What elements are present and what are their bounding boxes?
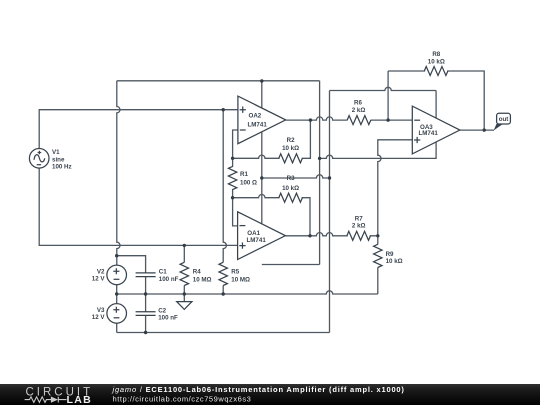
junction V2+ to C1 xyxy=(115,254,118,257)
svg-text:100 Ω: 100 Ω xyxy=(240,179,257,186)
svg-text:10 kΩ: 10 kΩ xyxy=(282,185,299,192)
source V1 sine xyxy=(29,149,49,169)
wire R8 top row xyxy=(388,71,484,130)
wire OA2 top power pin xyxy=(261,81,263,108)
junction R3 to OA1 output xyxy=(308,234,311,237)
wire V3 top lead xyxy=(116,294,118,304)
wire mid ground rail (hops x=329.5) xyxy=(117,291,378,294)
resistor R4 zigzag (vertical) xyxy=(180,262,188,285)
junction R5 bottom on ground rail xyxy=(222,292,225,295)
wire vertical x=319.6 rail xyxy=(319,81,321,265)
junction OA3 -in node to R8 xyxy=(386,118,389,121)
label V1 xyxy=(52,149,72,171)
wire R8 left vertical xyxy=(387,71,389,120)
svg-text:R8: R8 xyxy=(432,51,440,58)
svg-text:LM741: LM741 xyxy=(419,130,439,137)
wire bottom rail xyxy=(117,332,330,334)
svg-text:LM741: LM741 xyxy=(247,237,267,244)
svg-text:jgamo / ECE1100-Lab06-Instrume: jgamo / ECE1100-Lab06-Instrumentation Am… xyxy=(112,385,405,394)
label R7 xyxy=(352,216,366,230)
junction R8 to OA3 output xyxy=(483,128,486,131)
svg-text:100 nF: 100 nF xyxy=(159,276,179,283)
wire rail B top to OA3 top pin (hops x=388.1) xyxy=(330,87,437,90)
resistor R6 zigzag xyxy=(347,116,371,125)
junction op-amp mid supply pins to rail xyxy=(260,176,263,179)
svg-text:R5: R5 xyxy=(231,268,239,275)
wire R9 top lead xyxy=(377,236,379,245)
svg-text:R3: R3 xyxy=(287,175,295,182)
svg-text:10 MΩ: 10 MΩ xyxy=(231,276,250,283)
wire ground lead xyxy=(183,294,185,302)
junction node B: R1 bottom / R3 / OA1 -in xyxy=(231,196,234,199)
resistor R7 zigzag xyxy=(347,231,371,240)
label R1 xyxy=(240,171,257,186)
wire R1 bottom lead xyxy=(232,189,234,198)
wire C1 top branch xyxy=(117,256,146,273)
resistor R9 zigzag (vertical) xyxy=(374,244,382,267)
wire R2 right lead up to OA2 output xyxy=(302,120,311,158)
wire OA3 output to out flag xyxy=(460,129,494,131)
wire OA3 top power pin xyxy=(435,91,437,119)
svg-text:V1: V1 xyxy=(52,149,60,156)
svg-text:http://circuitlab.com/czc759wq: http://circuitlab.com/czc759wqzx6s3 xyxy=(113,395,252,404)
label V3 xyxy=(92,307,106,321)
svg-text:V2: V2 xyxy=(97,269,105,276)
junction R4 bottom / ground on ground rail xyxy=(183,292,186,295)
label C2 xyxy=(158,308,178,322)
junction R4 top on OA1 +in row xyxy=(183,244,186,247)
resistor R8 zigzag xyxy=(424,67,448,76)
wire V1 top to OA2 + input xyxy=(39,110,238,149)
wire R3 left lead from R1 bottom node xyxy=(233,195,280,198)
wire R1 top lead xyxy=(232,158,234,167)
op-amp OA1 triangle xyxy=(238,212,286,260)
svg-text:12 V: 12 V xyxy=(92,314,106,321)
label R6 xyxy=(352,99,366,114)
junction V2- / V3+ on ground rail xyxy=(115,292,118,295)
wire OA2 bottom pin to OA1 top pin xyxy=(261,132,263,225)
wire vertical x=329.5 rail xyxy=(329,91,331,333)
junction OA2 V+ pin on top rail xyxy=(260,79,263,82)
label R8 xyxy=(428,51,445,65)
capacitor C2 plates xyxy=(136,312,156,316)
wire mid power rail to x=329.5 (hops x=319.6) xyxy=(262,175,330,178)
svg-text:2 kΩ: 2 kΩ xyxy=(352,223,366,230)
svg-text:LM741: LM741 xyxy=(248,121,268,128)
out flag xyxy=(494,113,511,130)
junction right supply vertical to mid rail xyxy=(328,176,331,179)
svg-text:12 V: 12 V xyxy=(92,276,106,283)
svg-text:R7: R7 xyxy=(355,216,363,223)
svg-text:10 kΩ: 10 kΩ xyxy=(282,145,299,152)
resistor R5 zigzag (vertical) xyxy=(219,262,227,285)
wire V1 bottom to OA1 + input xyxy=(39,168,237,245)
resistor R2 zigzag xyxy=(279,154,303,163)
svg-text:V3: V3 xyxy=(97,307,105,314)
wire OA1 - input stub up to R1 bottom xyxy=(233,198,238,226)
svg-text:out: out xyxy=(499,116,509,123)
svg-text:10 MΩ: 10 MΩ xyxy=(193,276,212,283)
source V3 xyxy=(107,304,127,324)
svg-text:R2: R2 xyxy=(287,137,295,144)
op-amp OA2 triangle xyxy=(238,96,286,144)
wire V3 bottom lead xyxy=(116,323,118,332)
op-amp OA3 triangle xyxy=(412,106,460,154)
wire V2 bottom lead xyxy=(116,285,118,294)
wire OA2 out row to OA3 - input with R6 (hops two rails) xyxy=(286,117,413,120)
wire rail A top xyxy=(117,80,320,82)
wire OA1 bottom pin rail xyxy=(262,264,320,266)
bottom bar xyxy=(0,384,540,405)
junction left supply vertical to OA3 V- rail xyxy=(318,157,321,160)
junction C2 bottom on V3- rail xyxy=(144,331,147,334)
wire OA2 - input stub down to R1 top xyxy=(233,130,238,158)
label R2 xyxy=(282,137,299,152)
label C1 xyxy=(159,269,179,284)
junction node V1+/OA2+ to R5 xyxy=(222,108,225,111)
wire OA1 out row with R7 (hops two rails) xyxy=(285,233,377,236)
capacitor C1 plates xyxy=(136,273,156,277)
wire OA3 bottom pin to rail y=158.4 (hops x=329.5) xyxy=(320,142,437,158)
junction node A: R1 top / R2 / OA2 -in xyxy=(231,157,234,160)
svg-text:C1: C1 xyxy=(159,269,167,276)
svg-text:100 nF: 100 nF xyxy=(158,315,178,322)
resistor R3 zigzag xyxy=(279,193,303,202)
wire C2 top lead xyxy=(145,294,147,312)
junction C1 bottom / C2 top on ground rail xyxy=(144,292,147,295)
wire R5 bottom lead xyxy=(222,285,224,294)
label R5 xyxy=(231,268,250,283)
wire R4 bottom lead xyxy=(183,285,185,294)
wire R4 top lead xyxy=(183,245,185,262)
junction R7 / R9 / OA3 +in xyxy=(376,234,379,237)
svg-text:sine: sine xyxy=(52,156,65,163)
label R9 xyxy=(386,251,403,265)
junction OA2 output to R2 xyxy=(309,118,312,121)
svg-text:LAB: LAB xyxy=(67,395,93,405)
wire branch down to R5 top (hops over OA1 + row) xyxy=(223,110,226,263)
svg-text:C2: C2 xyxy=(158,308,166,315)
label R3 xyxy=(282,175,299,192)
svg-text:OA1: OA1 xyxy=(247,230,260,237)
wire R9 bottom lead to mid rail xyxy=(377,267,379,294)
svg-text:R6: R6 xyxy=(354,99,362,106)
svg-text:2 kΩ: 2 kΩ xyxy=(352,107,366,114)
resistor R1 zigzag (vertical) xyxy=(228,166,236,189)
label R4 xyxy=(193,268,212,283)
wire C2 bottom lead xyxy=(145,316,147,333)
wire V+ vertical from rail down to V2 (hops two rows) xyxy=(117,81,120,265)
logo resistor+diode glyph and LAB xyxy=(25,397,67,403)
svg-text:100 Hz: 100 Hz xyxy=(52,163,72,170)
wire R2 left lead from R1 top node xyxy=(233,155,280,158)
label V2 xyxy=(92,269,106,283)
svg-text:R1: R1 xyxy=(240,171,248,178)
svg-text:10 kΩ: 10 kΩ xyxy=(386,258,403,265)
svg-text:10 kΩ: 10 kΩ xyxy=(428,59,445,66)
wire OA3 + input from below (hops y=158.4) xyxy=(378,140,413,236)
svg-text:OA2: OA2 xyxy=(249,112,262,119)
wire R3 right lead down to OA1 output xyxy=(302,198,310,236)
svg-text:R9: R9 xyxy=(386,251,394,258)
source V2 xyxy=(107,265,127,285)
ground xyxy=(177,302,192,310)
svg-text:R4: R4 xyxy=(193,268,201,275)
wire C1 bottom lead xyxy=(145,277,147,294)
